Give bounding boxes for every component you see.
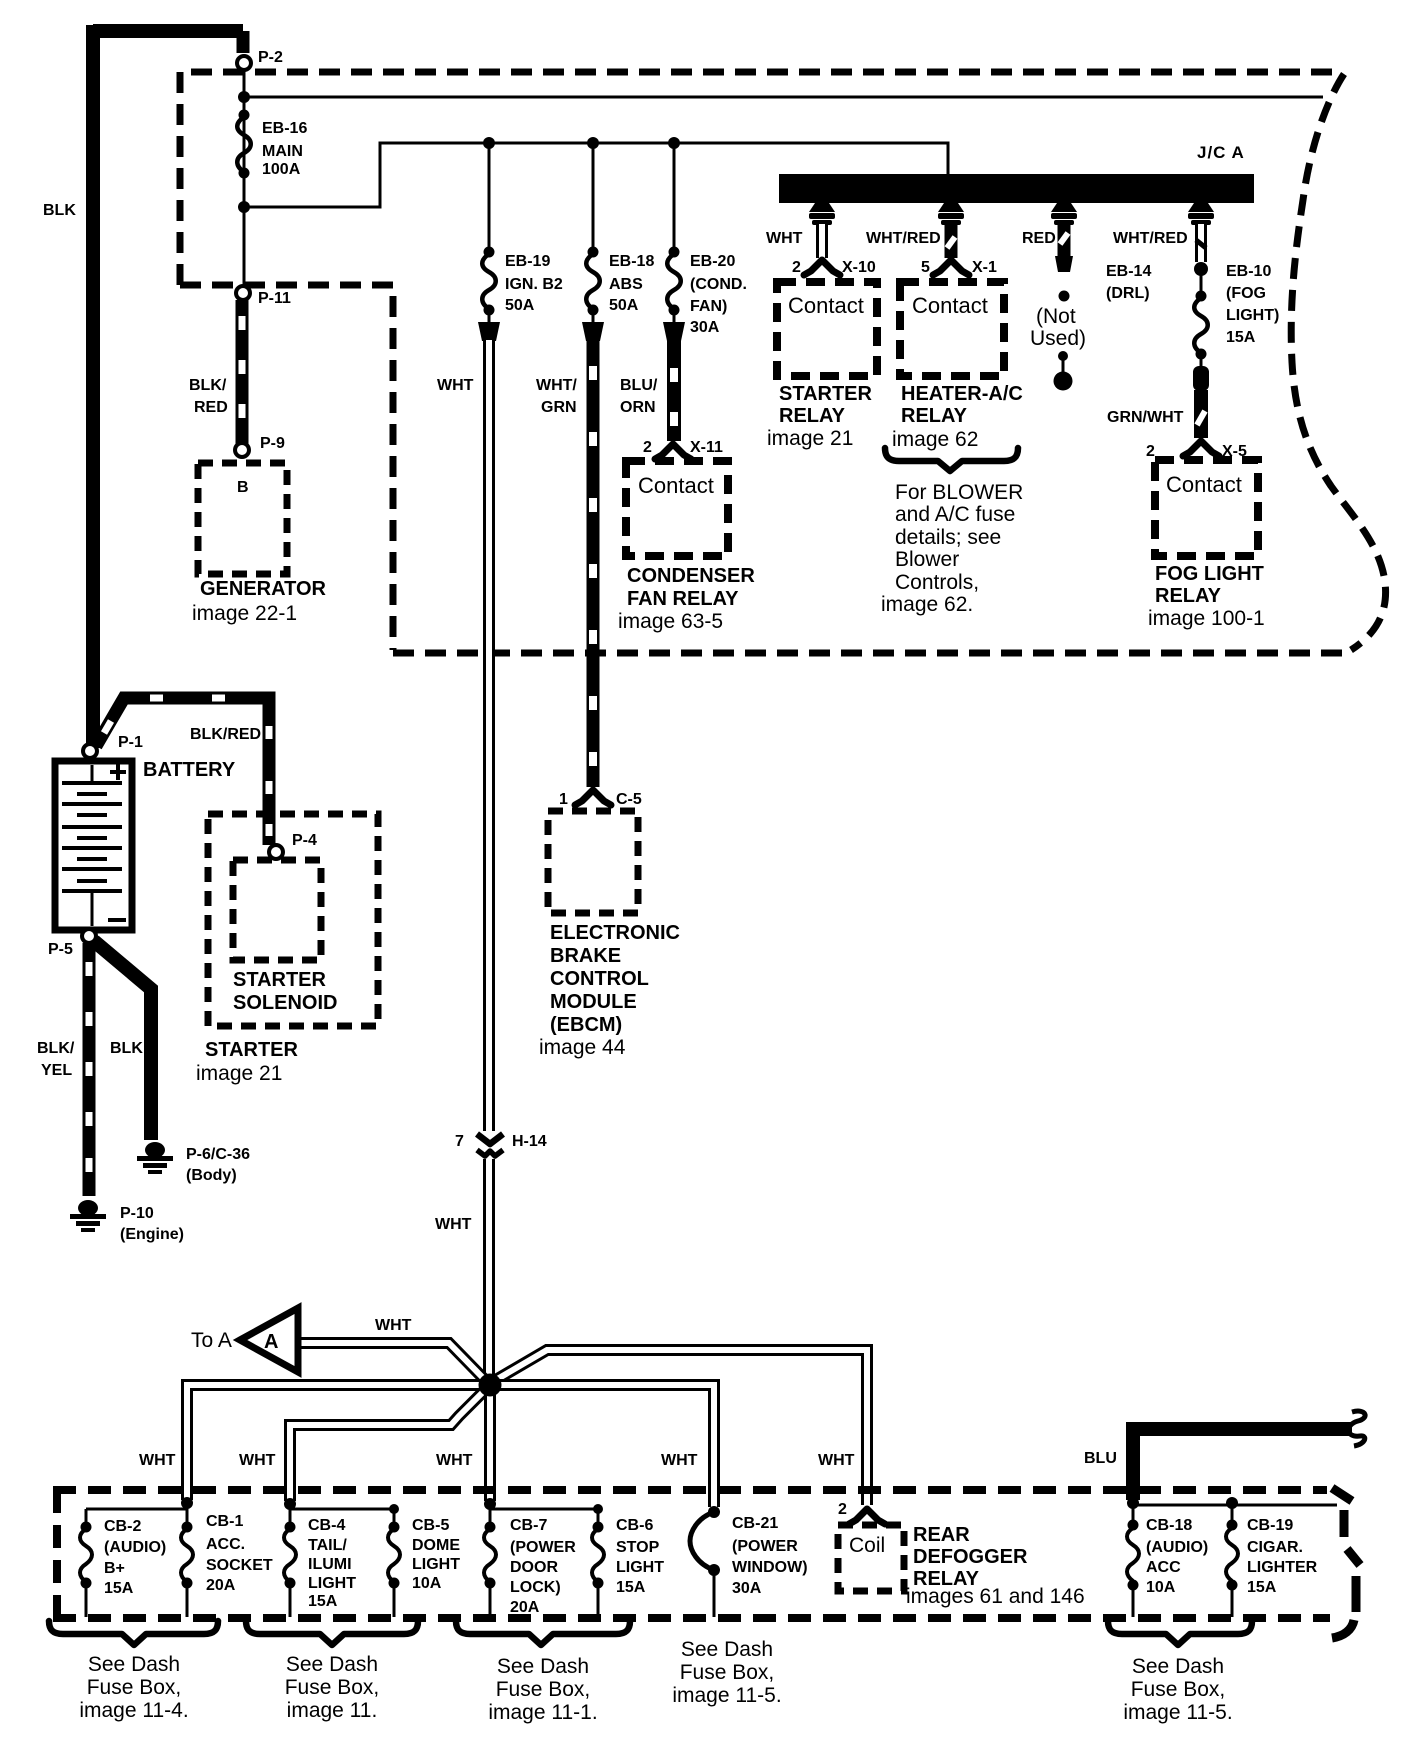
wire GRN/WHT fog relay	[1193, 366, 1209, 438]
svg-text:P-11: P-11	[258, 290, 291, 307]
svg-text:CB-19: CB-19	[1247, 1517, 1293, 1534]
svg-text:(Not: (Not	[1036, 305, 1076, 328]
svg-text:FAN): FAN)	[690, 298, 727, 315]
svg-text:Coil: Coil	[849, 1534, 885, 1557]
svg-text:2: 2	[1146, 443, 1155, 460]
label BLK/YEL	[37, 1040, 75, 1079]
svg-text:and A/C fuse: and A/C fuse	[895, 503, 1015, 526]
svg-text:BLK/: BLK/	[189, 377, 227, 394]
svg-text:STARTER: STARTER	[233, 969, 327, 991]
svg-text:See Dash: See Dash	[286, 1653, 378, 1676]
note see dash fuse box 11-4	[79, 1653, 188, 1722]
starter solenoid box	[233, 860, 337, 1014]
svg-text:WHT: WHT	[437, 377, 474, 394]
svg-text:HEATER-A/C: HEATER-A/C	[901, 383, 1023, 405]
svg-text:See Dash: See Dash	[1132, 1655, 1224, 1678]
svg-text:Fuse Box,: Fuse Box,	[496, 1678, 591, 1701]
svg-text:BLU/: BLU/	[620, 377, 658, 394]
svg-text:For BLOWER: For BLOWER	[895, 481, 1023, 504]
ground P-10 engine	[70, 1200, 184, 1243]
connector P-2	[237, 49, 283, 70]
svg-text:(AUDIO): (AUDIO)	[1146, 1539, 1208, 1556]
brace see dash 2	[246, 1621, 418, 1645]
svg-text:(AUDIO): (AUDIO)	[104, 1539, 166, 1556]
wire WHT to rear defogger relay	[494, 1350, 867, 1505]
svg-text:(Body): (Body)	[186, 1167, 237, 1184]
svg-text:GRN/WHT: GRN/WHT	[1107, 409, 1184, 426]
wire CB-18 link	[1133, 1504, 1337, 1507]
svg-text:RELAY: RELAY	[901, 405, 968, 427]
wire CB-2 link	[86, 1508, 187, 1511]
svg-text:15A: 15A	[104, 1580, 134, 1597]
breaker CB-19 CIGAR LIGHTER 15A	[1226, 1497, 1318, 1617]
svg-text:RELAY: RELAY	[779, 405, 846, 427]
svg-text:2: 2	[838, 1501, 847, 1518]
svg-text:ACC.: ACC.	[206, 1536, 245, 1553]
svg-text:Controls,: Controls,	[895, 571, 979, 594]
svg-text:ORN: ORN	[620, 399, 656, 416]
connector X-5 pin 2	[1146, 441, 1247, 460]
svg-text:B+: B+	[104, 1560, 125, 1577]
label WHT/GRN	[536, 377, 577, 416]
brace under image 62	[885, 448, 1018, 471]
svg-text:(Engine): (Engine)	[120, 1226, 184, 1243]
svg-text:CB-5: CB-5	[412, 1517, 449, 1534]
wire BLU/ORN to condenser fan relay	[667, 340, 681, 441]
svg-text:Fuse Box,: Fuse Box,	[1131, 1678, 1226, 1701]
svg-text:15A: 15A	[1226, 329, 1256, 346]
svg-text:images 61 and 146: images 61 and 146	[906, 1585, 1085, 1608]
label EB-14 DRL	[1106, 263, 1151, 302]
svg-text:7: 7	[455, 1133, 464, 1150]
svg-text:EB-19: EB-19	[505, 253, 550, 270]
heater A/C relay contact box	[900, 282, 1004, 376]
breaker CB-4 TAIL ILUMI LIGHT 15A	[284, 1498, 356, 1617]
EBCM box	[548, 811, 638, 913]
svg-text:EB-14: EB-14	[1106, 263, 1151, 280]
svg-text:CONDENSER: CONDENSER	[627, 565, 755, 587]
note see dash fuse box 11-5 left	[672, 1638, 781, 1707]
wire WHT to CB-4	[290, 1386, 489, 1501]
connector X-10 pin 2	[792, 259, 876, 276]
wire BLK/YEL to engine ground	[83, 943, 96, 1196]
svg-text:MAIN: MAIN	[262, 143, 303, 160]
svg-text:LIGHT: LIGHT	[616, 1559, 664, 1576]
svg-text:WHT: WHT	[435, 1216, 472, 1233]
svg-text:LIGHT): LIGHT)	[1226, 307, 1279, 324]
svg-text:image 11-5.: image 11-5.	[1123, 1701, 1232, 1724]
dash fuse box outline	[53, 1488, 1360, 1638]
note see dash fuse box 11	[285, 1653, 380, 1722]
svg-text:Blower: Blower	[895, 548, 959, 571]
svg-text:BLK/: BLK/	[37, 1040, 75, 1057]
svg-text:H-14: H-14	[512, 1133, 547, 1150]
svg-text:5: 5	[921, 259, 930, 276]
svg-text:LIGHT: LIGHT	[308, 1575, 356, 1592]
svg-text:CB-21: CB-21	[732, 1515, 778, 1532]
svg-text:Fuse Box,: Fuse Box,	[680, 1661, 775, 1684]
svg-text:P-1: P-1	[118, 734, 143, 751]
svg-text:WHT: WHT	[766, 230, 803, 247]
connector P-9	[235, 435, 285, 457]
svg-text:image 62.: image 62.	[881, 593, 973, 616]
svg-text:P-9: P-9	[260, 435, 285, 452]
svg-text:WHT/: WHT/	[536, 377, 577, 394]
label WHT row above dash fuse box	[139, 1452, 855, 1469]
breaker CB-1 ACC SOCKET 20A	[181, 1497, 273, 1617]
note see dash fuse box 11-5 right	[1123, 1655, 1232, 1724]
svg-text:50A: 50A	[609, 297, 639, 314]
label GENERATOR	[192, 578, 326, 625]
svg-text:DOOR: DOOR	[510, 1559, 558, 1576]
svg-text:P-10: P-10	[120, 1205, 154, 1222]
svg-text:50A: 50A	[505, 297, 535, 314]
fuse EB-16 MAIN 100A	[237, 110, 307, 179]
svg-text:P-2: P-2	[258, 49, 283, 66]
wire EB-16 to fuse bus	[244, 143, 948, 207]
connector P-5	[48, 929, 96, 958]
svg-text:SOCKET: SOCKET	[206, 1557, 273, 1574]
connector X-1 pin 5	[921, 259, 997, 276]
connector P-1	[83, 734, 143, 758]
svg-text:image 62: image 62	[892, 428, 978, 451]
svg-text:X-1: X-1	[972, 259, 997, 276]
svg-text:image 11.: image 11.	[287, 1699, 378, 1722]
svg-text:STOP: STOP	[616, 1539, 660, 1556]
svg-text:Fuse Box,: Fuse Box,	[87, 1676, 182, 1699]
wire BLU feed	[1133, 1411, 1365, 1500]
note For BLOWER	[881, 481, 1023, 616]
svg-text:EB-16: EB-16	[262, 120, 307, 137]
svg-text:Contact: Contact	[912, 293, 988, 318]
svg-text:LIGHT: LIGHT	[412, 1556, 460, 1573]
svg-text:image 21: image 21	[196, 1062, 282, 1085]
brace see dash 4	[1108, 1621, 1252, 1645]
svg-text:image 21: image 21	[767, 427, 853, 450]
svg-text:LOCK): LOCK)	[510, 1579, 561, 1596]
svg-text:FOG LIGHT: FOG LIGHT	[1155, 563, 1264, 585]
svg-text:CONTROL: CONTROL	[550, 968, 649, 990]
terminal stub below not used	[1054, 351, 1073, 391]
svg-text:A: A	[264, 1331, 278, 1353]
label STARTER RELAY	[767, 383, 873, 450]
svg-text:image 100-1: image 100-1	[1148, 607, 1265, 630]
svg-text:J/C A: J/C A	[1197, 143, 1245, 162]
busbar drop RED not used	[1051, 203, 1077, 302]
svg-text:CB-18: CB-18	[1146, 1517, 1192, 1534]
breaker CB-5 DOME LIGHT 10A	[388, 1504, 460, 1617]
label STARTER image 21	[196, 1039, 299, 1085]
svg-text:WHT/RED: WHT/RED	[1113, 230, 1188, 247]
wire BLK/RED battery to starter solenoid	[96, 698, 269, 845]
wire bus top horizontal	[244, 96, 1323, 99]
svg-text:LIGHTER: LIGHTER	[1247, 1559, 1318, 1576]
brace see dash 3	[456, 1621, 630, 1645]
starter relay contact box	[777, 282, 877, 376]
breaker CB-6 STOP LIGHT 15A	[592, 1504, 664, 1617]
svg-text:X-11: X-11	[690, 439, 723, 456]
svg-text:MODULE: MODULE	[550, 991, 637, 1013]
svg-text:To A: To A	[191, 1329, 232, 1352]
svg-text:image 11-5.: image 11-5.	[672, 1684, 781, 1707]
svg-text:CB-4: CB-4	[308, 1517, 345, 1534]
svg-text:C-5: C-5	[616, 791, 642, 808]
wire WHT to A triangle	[298, 1343, 486, 1381]
wire BLK to body ground	[94, 941, 151, 1140]
svg-text:EB-20: EB-20	[690, 253, 735, 270]
svg-text:See Dash: See Dash	[88, 1653, 180, 1676]
svg-text:2: 2	[643, 439, 652, 456]
wire WHT to CB-7	[484, 1385, 496, 1501]
svg-text:WHT: WHT	[139, 1452, 176, 1469]
svg-text:30A: 30A	[732, 1580, 762, 1597]
svg-text:See Dash: See Dash	[681, 1638, 773, 1661]
junction node splice	[479, 1374, 502, 1397]
fuse EB-20 COND FAN 30A	[663, 137, 747, 341]
note Not Used	[1030, 305, 1086, 350]
svg-text:P-4: P-4	[292, 832, 317, 849]
svg-text:RED: RED	[194, 399, 228, 416]
svg-text:Contact: Contact	[1166, 472, 1242, 497]
svg-text:FAN RELAY: FAN RELAY	[627, 588, 739, 610]
svg-text:X-10: X-10	[842, 259, 876, 276]
svg-text:(POWER: (POWER	[510, 1539, 576, 1556]
svg-text:DEFOGGER: DEFOGGER	[913, 1546, 1028, 1568]
svg-text:See Dash: See Dash	[497, 1655, 589, 1678]
ground P-6/C-36 body	[137, 1142, 250, 1184]
svg-text:ILUMI: ILUMI	[308, 1556, 352, 1573]
svg-text:1: 1	[559, 791, 568, 808]
fog light relay contact box	[1155, 460, 1258, 556]
junction block J/C A busbar	[779, 143, 1254, 203]
svg-text:(COND.: (COND.	[690, 276, 747, 293]
svg-text:(FOG: (FOG	[1226, 285, 1266, 302]
svg-text:ACC: ACC	[1146, 1559, 1181, 1576]
svg-text:details; see: details; see	[895, 526, 1001, 549]
svg-text:CB-1: CB-1	[206, 1513, 243, 1530]
connector P-4	[269, 832, 317, 859]
note see dash fuse box 11-1	[488, 1655, 597, 1724]
svg-text:Contact: Contact	[638, 473, 714, 498]
svg-text:GRN: GRN	[541, 399, 577, 416]
svg-text:STARTER: STARTER	[779, 383, 873, 405]
triangle To A	[191, 1308, 298, 1372]
svg-text:BLU: BLU	[1084, 1450, 1117, 1467]
battery	[55, 761, 132, 930]
svg-text:image 63-5: image 63-5	[618, 610, 723, 633]
svg-text:DOME: DOME	[412, 1537, 460, 1554]
busbar drop WHT/RED fog light	[1188, 203, 1214, 262]
brace see dash 1	[49, 1621, 218, 1645]
svg-text:100A: 100A	[262, 161, 301, 178]
wire WHT main vertical	[483, 340, 495, 1380]
breaker CB-21 POWER WINDOW 30A	[690, 1506, 808, 1617]
label HEATER-A/C RELAY	[892, 383, 1023, 451]
wire WHT to CB-1	[187, 1385, 490, 1500]
svg-text:image 22-1: image 22-1	[192, 602, 297, 625]
wire CB-4 link	[290, 1508, 394, 1511]
svg-text:WHT: WHT	[375, 1317, 412, 1334]
svg-text:ABS: ABS	[609, 276, 643, 293]
rear defogger relay coil box	[838, 1525, 904, 1591]
connector H-14 pin 7	[455, 1131, 547, 1159]
svg-text:WINDOW): WINDOW)	[732, 1559, 808, 1576]
breaker CB-2 AUDIO B+ 15A	[80, 1509, 166, 1617]
svg-text:WHT: WHT	[239, 1452, 276, 1469]
svg-text:P-6/C-36: P-6/C-36	[186, 1146, 250, 1163]
wire CB-7 link	[490, 1508, 598, 1511]
label REAR DEFOGGER RELAY	[906, 1524, 1085, 1608]
svg-text:STARTER: STARTER	[205, 1039, 299, 1061]
svg-text:15A: 15A	[308, 1593, 338, 1610]
svg-text:15A: 15A	[616, 1579, 646, 1596]
svg-text:BLK: BLK	[110, 1040, 143, 1057]
svg-text:30A: 30A	[690, 319, 720, 336]
svg-text:CB-2: CB-2	[104, 1518, 141, 1535]
engine fuse box dashed outline	[180, 72, 1386, 653]
node at P-2 branch	[238, 91, 250, 103]
svg-text:10A: 10A	[1146, 1579, 1176, 1596]
svg-text:WHT/RED: WHT/RED	[866, 230, 941, 247]
svg-text:image 11-1.: image 11-1.	[488, 1701, 597, 1724]
fuse EB-18 ABS 50A	[582, 137, 654, 341]
svg-text:(DRL): (DRL)	[1106, 285, 1150, 302]
svg-text:TAIL/: TAIL/	[308, 1537, 347, 1554]
svg-text:CIGAR.: CIGAR.	[1247, 1539, 1303, 1556]
busbar drop WHT/RED to heater relay	[933, 203, 969, 275]
svg-text:EB-18: EB-18	[609, 253, 654, 270]
label BLU/ORN	[620, 377, 658, 416]
breaker CB-7 POWER DOOR LOCK 20A	[484, 1498, 576, 1617]
svg-text:(POWER: (POWER	[732, 1538, 798, 1555]
wire BLK thick battery feed	[93, 25, 243, 748]
wire main feed vertical	[243, 70, 246, 290]
busbar drop WHT to starter relay	[804, 203, 840, 275]
breaker CB-18 AUDIO ACC 10A	[1127, 1497, 1208, 1617]
generator box	[198, 463, 287, 574]
svg-text:20A: 20A	[206, 1577, 236, 1594]
svg-text:EB-10: EB-10	[1226, 263, 1271, 280]
svg-text:15A: 15A	[1247, 1579, 1277, 1596]
svg-text:B: B	[237, 479, 249, 496]
svg-text:BRAKE: BRAKE	[550, 945, 621, 967]
svg-text:RELAY: RELAY	[1155, 585, 1222, 607]
svg-text:BATTERY: BATTERY	[143, 759, 236, 781]
svg-text:CB-6: CB-6	[616, 1517, 653, 1534]
svg-text:CB-7: CB-7	[510, 1517, 547, 1534]
fuse EB-10 FOG LIGHT 15A	[1194, 262, 1279, 368]
label BLK/RED generator	[189, 377, 228, 416]
condenser fan relay contact box	[626, 461, 728, 556]
svg-text:20A: 20A	[510, 1599, 540, 1616]
svg-text:ELECTRONIC: ELECTRONIC	[550, 922, 680, 944]
svg-text:IGN. B2: IGN. B2	[505, 276, 563, 293]
svg-text:WHT: WHT	[818, 1452, 855, 1469]
svg-text:(EBCM): (EBCM)	[550, 1014, 622, 1036]
svg-text:YEL: YEL	[41, 1062, 72, 1079]
svg-text:GENERATOR: GENERATOR	[200, 578, 326, 600]
svg-text:Used): Used)	[1030, 327, 1086, 350]
fuse EB-19 IGN.B2 50A	[478, 137, 563, 341]
svg-text:10A: 10A	[412, 1575, 442, 1592]
node EB-16 output	[238, 201, 250, 213]
svg-text:Contact: Contact	[788, 293, 864, 318]
label CONDENSER FAN RELAY	[618, 565, 755, 633]
svg-text:P-5: P-5	[48, 941, 73, 958]
svg-text:2: 2	[792, 259, 801, 276]
connector X-11 pin 2	[643, 439, 723, 459]
connector C-5 pin 1	[559, 790, 642, 808]
svg-text:RED: RED	[1022, 230, 1056, 247]
label FOG LIGHT RELAY	[1148, 563, 1265, 630]
connector coil pin 2	[838, 1501, 885, 1524]
wire BLK/RED generator feed	[236, 300, 249, 444]
wire WHT/GRN to EBCM	[587, 340, 600, 787]
svg-text:image 11-4.: image 11-4.	[79, 1699, 188, 1722]
svg-text:REAR: REAR	[913, 1524, 970, 1546]
svg-text:WHT: WHT	[436, 1452, 473, 1469]
svg-text:SOLENOID: SOLENOID	[233, 992, 337, 1014]
connector P-11	[236, 286, 291, 307]
wire WHT to CB-21	[490, 1385, 714, 1507]
svg-text:Fuse Box,: Fuse Box,	[285, 1676, 380, 1699]
label EBCM	[539, 922, 680, 1059]
svg-text:image 44: image 44	[539, 1036, 626, 1059]
svg-text:WHT: WHT	[661, 1452, 698, 1469]
svg-text:BLK: BLK	[43, 202, 76, 219]
svg-text:BLK/RED: BLK/RED	[190, 726, 261, 743]
starter dashed box	[208, 814, 378, 1026]
